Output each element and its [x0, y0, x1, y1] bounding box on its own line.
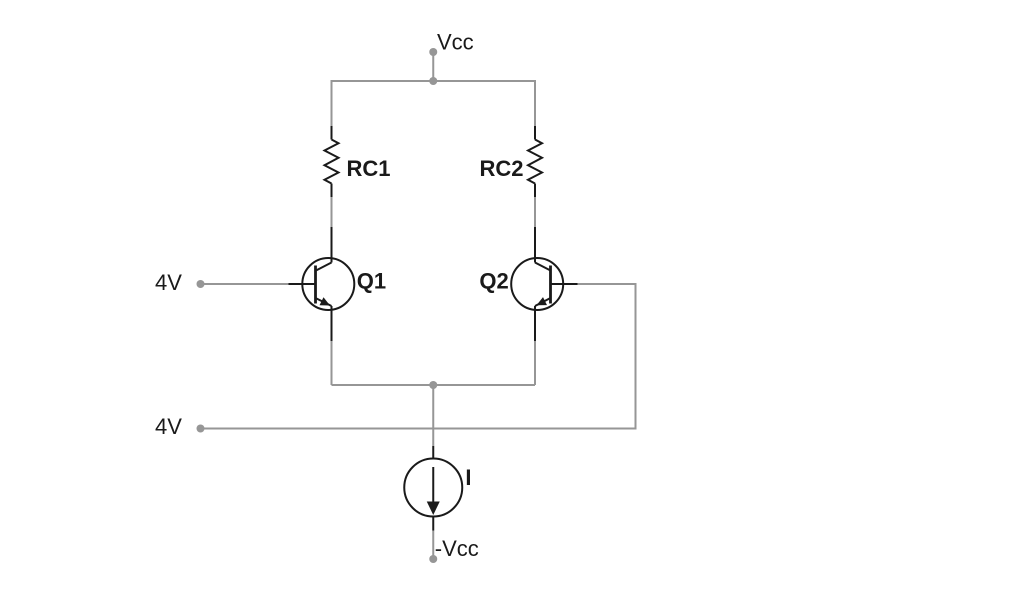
svg-text:Q2: Q2	[479, 269, 508, 294]
svg-text:RC2: RC2	[480, 156, 524, 181]
svg-text:RC1: RC1	[347, 156, 391, 181]
svg-text:I: I	[465, 465, 471, 490]
svg-text:Vcc: Vcc	[437, 30, 474, 55]
svg-text:4V: 4V	[155, 270, 182, 295]
svg-text:Q1: Q1	[357, 269, 386, 294]
svg-text:-Vcc: -Vcc	[435, 536, 479, 561]
svg-text:4V: 4V	[155, 414, 182, 439]
